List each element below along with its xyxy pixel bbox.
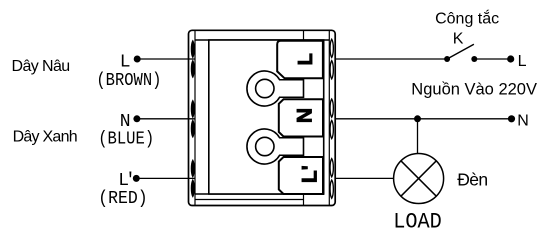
wire L' right to lamp bbox=[335, 177, 394, 179]
terminal block right strip line bbox=[328, 30, 330, 205]
screw terminal 2 (keyhole) bbox=[247, 129, 304, 164]
left strip lens pair terminal 1 bbox=[191, 41, 194, 78]
terminal block face panel bbox=[209, 40, 324, 194]
screw 1 inner circle bbox=[256, 79, 274, 97]
node L left terminal bbox=[134, 56, 141, 63]
wire L' left bbox=[136, 177, 195, 179]
terminal column divider line bbox=[303, 30, 305, 205]
svg-text:N: N bbox=[517, 112, 529, 129]
right strip lens pair terminal 2 bbox=[330, 99, 333, 139]
screw terminal 1 (keyhole) bbox=[247, 71, 304, 106]
lamp X stroke 1 bbox=[401, 161, 436, 196]
switch K left contact bbox=[444, 56, 450, 62]
node N left terminal bbox=[133, 115, 140, 122]
wire junction to lamp bbox=[417, 119, 419, 154]
svg-text:Dây Xanh: Dây Xanh bbox=[13, 129, 77, 146]
node L' left terminal bbox=[133, 175, 140, 182]
lamp LOAD circle bbox=[394, 154, 444, 204]
wire N left bbox=[137, 118, 195, 120]
marker tag box L bbox=[277, 41, 323, 79]
svg-text:L: L bbox=[295, 53, 317, 65]
wire N right bbox=[335, 118, 512, 120]
right strip lens pair terminal 1 bbox=[330, 39, 333, 79]
terminal block left strip line bbox=[194, 30, 196, 205]
svg-text:L': L' bbox=[299, 165, 322, 183]
svg-text:Đèn: Đèn bbox=[457, 170, 487, 190]
switch K right contact bbox=[471, 56, 477, 62]
svg-text:(RED): (RED) bbox=[98, 188, 148, 209]
svg-text:Dây Nâu: Dây Nâu bbox=[12, 58, 70, 75]
left strip lens pair terminal 3 bbox=[191, 160, 194, 197]
node L right terminal bbox=[507, 55, 514, 62]
wire switch to L terminal bbox=[474, 58, 510, 60]
svg-text:Công tắc: Công tắc bbox=[435, 8, 499, 27]
marker tag box L' bbox=[279, 157, 323, 194]
node N right terminal bbox=[508, 115, 515, 122]
wire L left bbox=[137, 58, 195, 60]
bottom band face line bbox=[195, 193, 323, 195]
node N junction bbox=[414, 115, 421, 122]
screw 2 inner circle bbox=[256, 137, 274, 155]
wire L right to switch bbox=[335, 58, 447, 60]
svg-text:Nguồn Vào 220V: Nguồn Vào 220V bbox=[411, 81, 537, 99]
right strip lens pair terminal 3 bbox=[330, 159, 333, 199]
terminal block outer body bbox=[189, 30, 336, 205]
left strip lens pair terminal 2 bbox=[191, 101, 194, 138]
svg-text:(BROWN): (BROWN) bbox=[96, 70, 161, 91]
switch K blade bbox=[447, 44, 474, 59]
lamp X stroke 2 bbox=[401, 161, 436, 196]
marker tag box N bbox=[279, 99, 323, 136]
svg-text:LOAD: LOAD bbox=[393, 209, 442, 229]
svg-text:K: K bbox=[453, 31, 464, 48]
bottom band inner line bbox=[195, 199, 304, 201]
svg-text:(BLUE): (BLUE) bbox=[98, 129, 154, 150]
top band line bbox=[195, 39, 329, 41]
svg-text:N: N bbox=[293, 108, 316, 123]
svg-text:L: L bbox=[518, 53, 527, 70]
